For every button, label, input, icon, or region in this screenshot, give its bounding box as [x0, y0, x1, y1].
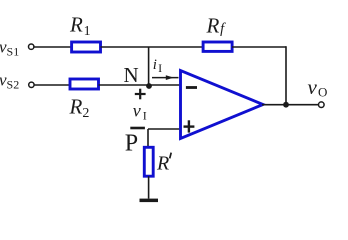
svg-text:vS2: vS2	[0, 71, 19, 92]
wire node N vertical	[148, 47, 150, 85]
wire Rf to corner	[232, 46, 286, 48]
polarity minus near P	[130, 127, 145, 130]
node N junction	[146, 83, 152, 89]
svg-text:vI: vI	[133, 101, 147, 123]
op-amp minus input sign	[186, 86, 197, 89]
svg-text:N: N	[124, 63, 139, 87]
wire feedback vertical	[285, 46, 287, 104]
op-amp U1	[181, 71, 264, 139]
current arrow i1	[152, 75, 179, 80]
svg-text:P: P	[125, 131, 138, 157]
svg-text:Rf: Rf	[206, 14, 227, 38]
resistor Rf	[203, 42, 232, 51]
wire output	[262, 104, 318, 106]
wire R2 to op-amp	[99, 84, 180, 86]
terminal vS2	[29, 82, 34, 87]
node output junction	[283, 102, 289, 108]
terminal vO	[319, 102, 325, 108]
svg-text:R: R	[156, 153, 169, 175]
wire P to op-amp plus input	[148, 128, 180, 130]
wire P vertical down to R'	[147, 129, 149, 147]
wire R1 to Rf	[101, 46, 205, 48]
resistor R2	[70, 79, 99, 89]
svg-text:R2: R2	[69, 95, 90, 122]
wire vS2 to R2	[34, 84, 71, 86]
svg-text:iI: iI	[153, 57, 162, 75]
resistor R1	[72, 42, 101, 52]
svg-text:vS1: vS1	[0, 37, 19, 58]
wire vS1 to R1	[34, 46, 72, 48]
resistor R'	[144, 147, 153, 176]
svg-text:vO: vO	[308, 75, 328, 100]
terminal vS1	[29, 44, 34, 49]
op-amp plus input sign	[184, 120, 195, 132]
polarity plus near N	[135, 89, 146, 100]
wire R' to ground	[148, 176, 150, 198]
ground	[140, 199, 159, 203]
svg-text:R1: R1	[69, 13, 91, 40]
